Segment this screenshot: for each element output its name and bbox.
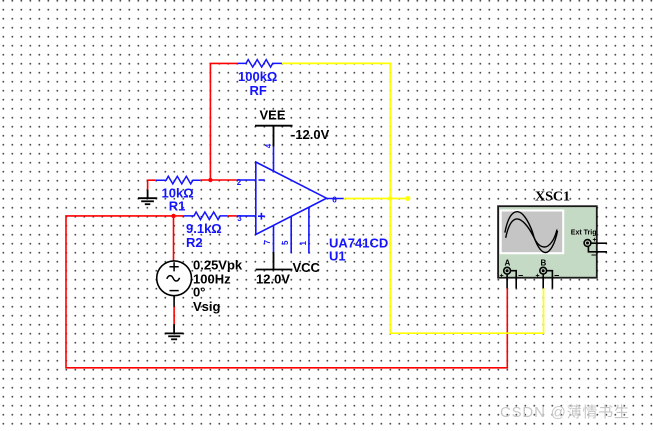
svg-text:−: − — [591, 250, 596, 260]
power VEE symbol — [255, 126, 293, 147]
svg-text:XSC1: XSC1 — [535, 190, 570, 205]
op-amp pin 3 lead — [237, 215, 256, 217]
op-amp pin 7 lead (bottom, VCC) blue part — [273, 225, 275, 252]
svg-text:RF: RF — [250, 83, 267, 98]
wire red: R2 right lead to op-amp pin 3 — [228, 215, 237, 217]
op-amp pin 1 lead — [308, 207, 310, 253]
svg-text:−: − — [554, 271, 559, 281]
svg-text:R2: R2 — [186, 235, 203, 250]
svg-text:0°: 0° — [193, 285, 205, 300]
svg-text:VEE: VEE — [260, 108, 286, 123]
svg-text:-12.0V: -12.0V — [291, 127, 330, 142]
Ext Trig minus stub wire — [588, 247, 607, 252]
wire yellow: RF right lead right, down, across, up to scope B — [282, 63, 544, 333]
terminal B minus stub — [547, 271, 553, 289]
wire red: ground corner to R1 left lead — [148, 180, 156, 190]
terminal Ext Trig — [584, 240, 591, 247]
source sine marker — [167, 276, 180, 281]
resistor RF 100k zigzag — [238, 60, 282, 68]
op-amp minus marker (pin2) — [259, 179, 265, 181]
svg-text:B: B — [541, 259, 547, 268]
terminal B — [540, 267, 547, 274]
source minus marker — [170, 290, 179, 292]
power VCC symbol — [256, 252, 293, 270]
svg-text:0.25Vpk: 0.25Vpk — [193, 258, 243, 273]
svg-text:9.1kΩ: 9.1kΩ — [186, 221, 222, 236]
wire red: R1 right lead to op-amp pin 2 — [200, 179, 236, 181]
node yellow wire end blob — [405, 196, 410, 201]
wire red: RF left corner down to inverting-input node — [210, 63, 237, 180]
svg-text:VCC: VCC — [293, 260, 321, 275]
source plus marker — [170, 262, 179, 271]
svg-text:+: + — [536, 273, 540, 280]
svg-text:12.0V: 12.0V — [256, 272, 290, 287]
svg-text:100kΩ: 100kΩ — [238, 69, 277, 84]
wire red: R2 node to R2 left lead — [174, 215, 184, 217]
op-amp U1 triangle — [256, 162, 327, 234]
scope waveform curve B — [506, 219, 557, 247]
svg-text:4: 4 — [264, 143, 273, 148]
svg-text:−: − — [518, 271, 523, 281]
Ext Trig plus stub wire — [591, 242, 607, 244]
terminal B plus stub — [542, 274, 544, 288]
ground (left, at R1) — [138, 190, 157, 204]
ground (below Vsig) — [165, 324, 184, 339]
svg-text:7: 7 — [263, 239, 272, 244]
op-amp pin 5 lead — [290, 216, 292, 253]
source Vsig circle — [157, 261, 192, 296]
svg-text:Ext Trig: Ext Trig — [571, 230, 597, 237]
svg-text:A: A — [505, 259, 511, 268]
svg-text:+: + — [593, 237, 597, 244]
node junction yellow at output/RF net — [388, 196, 393, 201]
terminal A — [504, 267, 511, 274]
wire red: node down to Vsig top — [173, 216, 175, 261]
op-amp output pin 6 lead — [327, 198, 344, 200]
svg-text:6: 6 — [332, 195, 337, 204]
scope waveform curve A — [505, 212, 558, 253]
op-amp plus marker (pin3) — [258, 213, 265, 220]
op-amp pin 2 lead — [237, 179, 256, 181]
svg-text:CSDN @薄情书生: CSDN @薄情书生 — [500, 404, 630, 421]
wire yellow: op-amp output to stub end — [344, 198, 408, 200]
resistor R2 9.1k zigzag — [183, 212, 227, 220]
svg-text:3: 3 — [237, 214, 242, 223]
terminal A minus stub — [511, 271, 517, 289]
oscilloscope screen — [501, 211, 564, 254]
wire red: left loop from R2 node down and across bottom up to scope A — [66, 216, 507, 368]
op-amp pin 4 lead (top, VEE) blue part — [273, 147, 275, 172]
resistor R1 10k zigzag — [156, 176, 201, 184]
svg-text:5: 5 — [281, 240, 290, 245]
wire red: Vsig bottom to ground lead — [173, 307, 175, 325]
svg-text:2: 2 — [237, 178, 242, 187]
node junction at R2 / Vsig / loop — [171, 214, 175, 218]
svg-text:R1: R1 — [169, 199, 186, 214]
svg-text:Vsig: Vsig — [193, 299, 221, 314]
svg-text:1: 1 — [299, 241, 308, 246]
terminal A plus stub — [506, 274, 508, 288]
source bottom black lead — [173, 296, 175, 307]
svg-text:+: + — [500, 273, 504, 280]
oscilloscope XSC1 body — [498, 206, 597, 278]
svg-text:U1: U1 — [329, 249, 346, 264]
node junction at R1 / RF / pin2 — [208, 178, 212, 182]
